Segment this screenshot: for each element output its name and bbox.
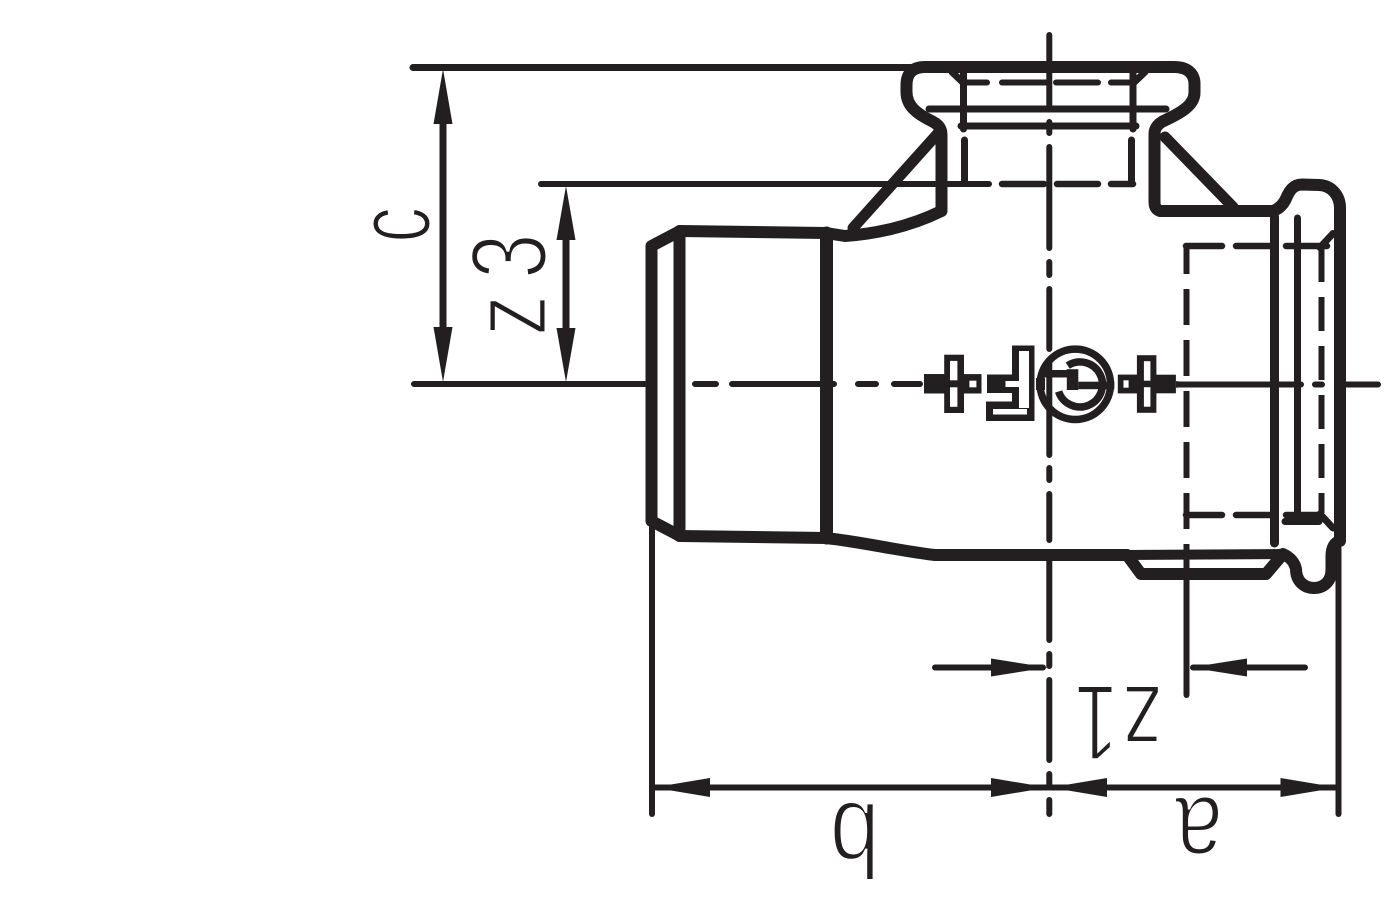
dimension line b and a	[652, 785, 1339, 791]
branch socket thread dashed line	[964, 80, 1133, 86]
branch thread depth dashed line	[1002, 181, 1133, 188]
right socket thread dashed vertical	[1319, 248, 1325, 513]
dimension line c	[440, 100, 447, 355]
logo F white bottom slot	[993, 409, 1027, 415]
logo plus2 white slot top	[1144, 361, 1151, 381]
logo G bar	[1040, 370, 1068, 378]
branch socket mouth line	[961, 123, 1136, 130]
branch left rib	[853, 131, 940, 228]
branch socket inner vertical left	[960, 71, 967, 129]
spigot thread end line	[820, 233, 833, 538]
branch thread depth vertical right	[1128, 140, 1135, 183]
arrowhead c top	[434, 69, 453, 124]
logo G white channel	[1045, 378, 1067, 391]
logo plus2 stub right	[1176, 381, 1179, 388]
logo G centerline stub left	[1036, 378, 1045, 390]
arrowhead z3 bottom	[557, 328, 576, 382]
logo plus2 left arm	[1118, 375, 1137, 394]
arrowhead b left	[653, 778, 710, 797]
branch right rib	[1165, 137, 1233, 207]
extension line z1	[1184, 580, 1190, 695]
arrowhead b right	[991, 778, 1048, 797]
right socket bottom seat line	[1285, 518, 1319, 525]
extension line z3 level	[541, 181, 989, 187]
branch thread depth vertical left	[961, 140, 968, 183]
right socket chamfer bottom	[1320, 514, 1333, 528]
logo plus1 vertical bar	[944, 355, 964, 413]
arrowhead a left	[1050, 778, 1107, 797]
horizontal centerline left of logo	[414, 381, 920, 387]
right socket bore dashed bottom	[1186, 512, 1319, 519]
arrowhead z3 top	[557, 186, 576, 240]
branch socket inner vertical right	[1130, 71, 1137, 129]
svg-text:a: a	[1157, 774, 1223, 895]
fitting outer silhouette	[652, 67, 1341, 588]
arrowhead a right	[1281, 778, 1338, 797]
arrowhead z1 left	[991, 659, 1048, 677]
logo F white gap between arms	[986, 393, 1012, 402]
extension line top (c reference, top of branch)	[413, 64, 928, 71]
svg-text:c: c	[333, 192, 453, 242]
svg-text:z1: z1	[1071, 662, 1163, 782]
svg-text:b: b	[811, 779, 880, 899]
logo F white arm notch	[1006, 381, 1020, 387]
logo G outer ring	[1040, 349, 1110, 419]
logo F middle arm	[987, 375, 1012, 394]
right socket bore dashed top	[1186, 243, 1327, 250]
arrowhead z1 right	[1190, 659, 1247, 677]
logo plus2 vertical bar	[1137, 355, 1157, 413]
right socket chamfer top	[1320, 234, 1333, 248]
right socket face line	[1270, 217, 1279, 543]
branch socket chamfer right	[1134, 72, 1145, 83]
arrowhead c bottom	[434, 327, 453, 382]
logo plus1 white slot top	[950, 361, 957, 380]
vertical centerline branch axis	[1046, 35, 1052, 814]
horizontal centerline right of logo	[1179, 382, 1378, 388]
band step on run bottom	[1127, 554, 1283, 555]
spigot chamfer face line	[674, 231, 686, 536]
thread depth dashed vertical z1	[1184, 246, 1190, 580]
extension line a right	[1336, 548, 1342, 814]
logo G centerline right	[1078, 382, 1114, 390]
logo plus2 horizontal arm	[1118, 375, 1176, 394]
centerline crossing logo G channel	[1046, 378, 1052, 391]
dimension line z1 left part	[935, 665, 1043, 671]
logo F stem	[1012, 346, 1035, 422]
right socket bead inner line	[1294, 218, 1301, 520]
logo plus1 horizontal arm	[924, 374, 982, 393]
svg-text:z3: z3	[450, 217, 570, 336]
logo G center square	[1067, 369, 1079, 390]
logo F bottom arm	[986, 402, 1035, 422]
logo plus1 white slot bottom	[950, 387, 957, 407]
branch socket chamfer left	[952, 72, 963, 83]
logo dash left	[924, 374, 944, 393]
dimension line z3	[563, 212, 570, 355]
logo GF rotated	[924, 346, 1178, 422]
logo F white stem slot	[1019, 351, 1029, 408]
dimension line z1 right part	[1193, 665, 1305, 671]
logo plus2 white hole left arm	[1124, 380, 1129, 387]
logo plus2 white slot bottom	[1144, 387, 1151, 407]
logo plus1 white hole right arm	[969, 381, 976, 388]
extension line b left	[649, 526, 655, 814]
branch bead bottom line	[929, 106, 1166, 113]
logo G inner arc	[1059, 362, 1103, 407]
